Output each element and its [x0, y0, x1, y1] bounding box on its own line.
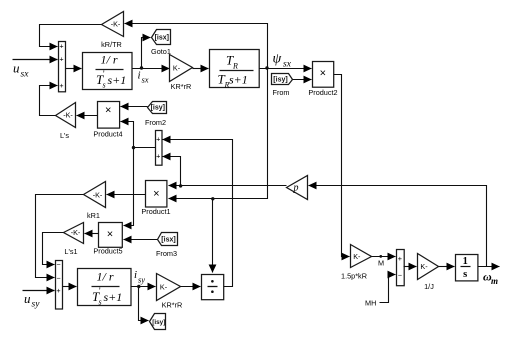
label psi_sx: [273, 52, 292, 70]
wire From3 to Product5 input2: [124, 239, 158, 241]
svg-text:−: −: [56, 273, 60, 282]
svg-text:u: u: [24, 291, 31, 306]
product Product2: [308, 62, 337, 98]
svg-text:sx: sx: [21, 70, 30, 80]
svg-text:×: ×: [107, 229, 113, 241]
svg-text:×: ×: [105, 105, 111, 117]
wire isx branch up to Goto1: [142, 38, 151, 69]
svg-text:[isy]: [isy]: [273, 77, 287, 84]
product Product1: [141, 181, 170, 217]
wire From to Product2 input2: [293, 79, 312, 81]
svg-text:-K-: -K-: [93, 190, 103, 199]
svg-text:s+1: s+1: [108, 73, 127, 87]
wire L's output to Sum1 input3: [40, 86, 58, 116]
wire psi down to Product1 input2: [169, 69, 268, 199]
svg-text:×: ×: [320, 68, 326, 80]
svg-text:MH: MH: [365, 299, 376, 308]
svg-text:K-: K-: [353, 252, 361, 261]
gain KR*rR (K-) top: [170, 55, 193, 91]
wire Sum1 output to TF1: [66, 68, 82, 70]
svg-text:K-: K-: [160, 283, 168, 292]
svg-text:Product2: Product2: [308, 88, 337, 97]
svg-text:u: u: [13, 61, 20, 76]
gain kR/TR (-K-): [101, 12, 123, 50]
svg-text:sy: sy: [32, 300, 41, 310]
wire Divide output up to Sum3 input1: [163, 140, 233, 287]
svg-text:K-: K-: [420, 262, 428, 271]
wire isy branch down to Goto isy: [139, 287, 149, 321]
wire kR1 output to Sum2 input2: [36, 195, 84, 278]
wire Product1 output to kR1: [107, 194, 146, 196]
svg-text:1/J: 1/J: [424, 282, 434, 291]
svg-text:1/ r: 1/ r: [96, 270, 113, 284]
svg-text:M: M: [378, 258, 384, 267]
node isy junction: [137, 285, 140, 288]
svg-text:From3: From3: [156, 249, 177, 258]
wire TF2 output i_sy to gain KR*rR2: [131, 286, 156, 288]
from tag From3 [isx]: [156, 233, 178, 259]
svg-text:s: s: [463, 269, 467, 280]
sum Sum2: [56, 260, 63, 309]
product Product4: [93, 102, 122, 139]
wire Sum4 output to 1/J: [404, 266, 417, 268]
gain p: [287, 176, 308, 200]
wire Product2 output down to 1.5p*kR gain: [334, 75, 350, 257]
svg-text:−: −: [398, 270, 402, 279]
svg-text:s: s: [103, 81, 106, 90]
node psi junction: [265, 66, 268, 69]
svg-text:sx: sx: [142, 75, 149, 85]
transfer function TR over TRs+1: [210, 50, 260, 90]
svg-text:Product1: Product1: [141, 207, 170, 216]
svg-text:+: +: [156, 135, 160, 144]
wire kR/TR output to Sum1 input1: [40, 25, 102, 47]
svg-text:-K-: -K-: [71, 228, 81, 237]
svg-text:+: +: [56, 286, 60, 295]
svg-text:+: +: [398, 254, 402, 263]
svg-text:p: p: [293, 183, 299, 194]
svg-text:-K-: -K-: [63, 111, 73, 120]
svg-text:kR1: kR1: [87, 211, 100, 220]
svg-text:1: 1: [463, 256, 468, 267]
goto tag [isy] bottom: [150, 314, 166, 330]
product Product5: [93, 223, 122, 256]
gain kR1 (-K-): [84, 182, 106, 221]
wire TF1 output i_sx to gain KR*rR: [133, 68, 170, 70]
wire L's1 output to Sum2 input1: [43, 233, 64, 265]
wire TR output psi_sx to Product2: [260, 68, 312, 70]
goto tag Goto1 [isx]: [151, 30, 171, 57]
sum Sum3 mirrored: [156, 131, 163, 166]
svg-text:L's1: L's1: [64, 247, 77, 256]
sum Sum4: [397, 250, 405, 286]
wire psi to kR/TR gain input: [125, 24, 268, 69]
from tag From [isy]: [272, 74, 293, 98]
input u_sx: [13, 61, 29, 80]
svg-text:KR*rR: KR*rR: [162, 301, 183, 310]
wire From2 to Product4 input1: [121, 106, 148, 108]
wire 1.5p*kR output M to Sum4: [372, 256, 396, 258]
node p-omega junction: [179, 184, 182, 187]
gain L's1 (-K-): [64, 223, 84, 257]
svg-text:Product4: Product4: [93, 130, 122, 139]
svg-text:[isy]: [isy]: [152, 319, 165, 326]
svg-text:sx: sx: [283, 60, 292, 70]
svg-text:-K-: -K-: [111, 20, 121, 29]
svg-text:+: +: [59, 54, 63, 63]
node psi-divide junction: [211, 197, 214, 200]
gain 1.5p*kR (K-): [341, 245, 371, 281]
svg-text:i: i: [138, 70, 141, 82]
svg-text:+: +: [59, 42, 63, 51]
gain KR*rR2 (K-) bottom: [157, 274, 183, 310]
svg-text:[isy]: [isy]: [151, 105, 165, 112]
wire Sum3 output to Product4 input2 and Product5 input1: [134, 147, 156, 149]
wire KR*rR to TR block: [193, 68, 209, 70]
wire psi branch down to Divide top input: [212, 199, 214, 273]
wire Product4 output to L's: [77, 115, 98, 117]
wire KR*rR2 output to Divide: [181, 286, 201, 288]
label omega_m: [483, 270, 498, 287]
transfer function TF1 1/r over T's s+1: [83, 53, 133, 90]
svg-text:1.5p*kR: 1.5p*kR: [341, 272, 367, 281]
svg-text:i: i: [134, 269, 137, 281]
svg-text:K-: K-: [173, 63, 181, 72]
node isx branch junction: [140, 66, 143, 69]
label MH and wire MH to Sum4 input2: [365, 275, 396, 308]
label i_sx: [138, 70, 149, 85]
svg-text:sy: sy: [138, 275, 145, 285]
wire 1/J output to integrator: [439, 266, 455, 268]
wire omega feedback up to p gain: [309, 186, 487, 267]
divide block: [202, 275, 224, 300]
svg-text:L's: L's: [60, 131, 69, 140]
input u_sy: [24, 291, 40, 310]
svg-text:Product5: Product5: [93, 247, 122, 256]
svg-text:From2: From2: [145, 118, 166, 127]
node M dot: [379, 255, 382, 258]
svg-text:s+1: s+1: [104, 290, 123, 304]
wire u_sx to Sum1: [13, 59, 58, 61]
svg-text:+: +: [59, 81, 63, 90]
svg-text:From: From: [272, 88, 289, 97]
wire u_sy to Sum2: [23, 290, 55, 292]
wire branch up to Sum3 input2: [163, 157, 181, 186]
label i_sy: [134, 269, 145, 285]
svg-text:+: +: [156, 152, 160, 161]
svg-text:ψ: ψ: [273, 52, 282, 67]
gain L's (-K-): [56, 103, 76, 140]
from tag From2 [isy]: [145, 102, 167, 128]
wire p output to Product1 input1: [169, 185, 287, 187]
svg-text:m: m: [491, 276, 498, 286]
svg-text:−: −: [56, 260, 60, 269]
wire integrator output omega_m: [478, 266, 500, 268]
svg-text:[isx]: [isx]: [161, 237, 175, 244]
svg-text:s+1: s+1: [229, 73, 248, 87]
wire Sum2 output to TF2: [63, 286, 77, 288]
sum Sum1: [59, 42, 66, 92]
wire Product5 output to L's1: [85, 233, 99, 235]
svg-text:s: s: [99, 298, 102, 307]
transfer function TF2 1/r over T's s+1: [78, 269, 132, 307]
svg-text:Goto1: Goto1: [151, 47, 171, 56]
svg-text:[isx]: [isx]: [155, 35, 169, 42]
svg-text:×: ×: [153, 188, 159, 200]
svg-text:kR/TR: kR/TR: [101, 40, 122, 49]
integrator 1/s: [456, 255, 478, 281]
svg-text:R: R: [232, 62, 238, 71]
svg-text:KR*rR: KR*rR: [171, 82, 192, 91]
gain 1/J (K-): [418, 254, 439, 292]
svg-text:1/ r: 1/ r: [100, 53, 117, 67]
